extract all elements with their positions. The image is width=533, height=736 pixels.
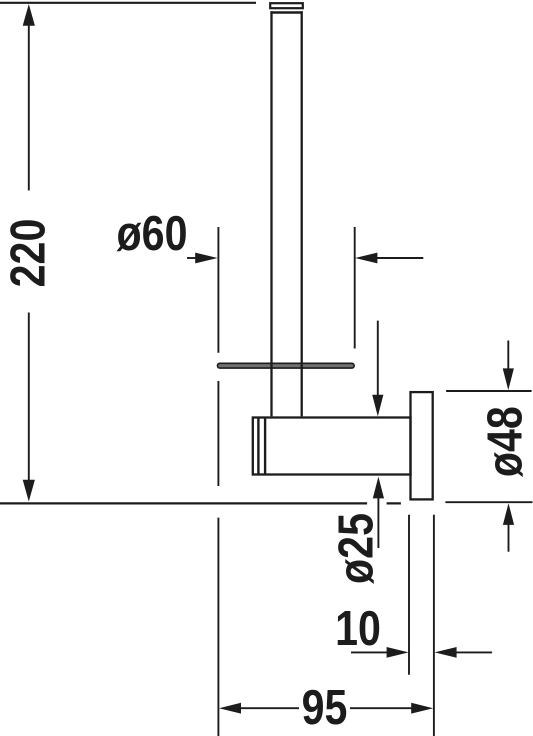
arrowhead 10 right — [435, 647, 457, 658]
dimension line ø25 top — [377, 321, 379, 396]
arrowhead 95 right — [411, 703, 433, 714]
extension line flange left (10) — [408, 515, 410, 675]
arrowhead 10 left — [387, 647, 409, 658]
arrowhead ø25 bottom — [373, 477, 384, 499]
extension line right ø60 — [354, 227, 356, 349]
extension line right (10 / 95) — [433, 515, 435, 736]
extension line ø48 top — [446, 390, 531, 392]
svg-text:ø48: ø48 — [477, 406, 532, 477]
svg-text:ø60: ø60 — [117, 206, 188, 261]
svg-text:ø25: ø25 — [328, 513, 383, 584]
extension line top (220 datum) — [0, 2, 256, 4]
dimension line ø25 bottom — [377, 498, 379, 548]
arrowhead 95 left — [219, 703, 241, 714]
holder cylinder — [253, 418, 411, 475]
arrowhead ø48 top — [503, 368, 514, 390]
dimension line 220 — [28, 24, 30, 480]
svg-text:10: 10 — [335, 601, 381, 656]
pipe body — [272, 11, 302, 416]
arrowhead ø25 top — [372, 395, 383, 417]
dimension line ø60 left — [187, 257, 196, 259]
extension line ø48 bottom — [445, 501, 532, 503]
cylinder end cap line 2 — [264, 418, 266, 475]
svg-text:220: 220 — [0, 219, 55, 288]
wall flange — [411, 392, 433, 499]
cylinder end cap line 1 — [257, 418, 259, 475]
pipe shoulder — [270, 11, 302, 14]
pipe cap — [270, 3, 303, 8]
dimension line ø60 right — [377, 257, 423, 259]
crossbar (roll support bar) — [218, 363, 355, 368]
wall line (mounting surface) — [0, 502, 401, 504]
extension line left (ø60 / 95) — [217, 227, 219, 736]
svg-text:95: 95 — [302, 680, 348, 735]
dimension line ø48 top — [507, 341, 509, 370]
arrowhead ø60 right — [355, 253, 377, 264]
arrowhead ø60 left — [195, 253, 217, 264]
dimension line 10 right — [456, 651, 492, 653]
arrowhead 220 bottom — [23, 480, 35, 502]
arrowhead 220 top — [23, 4, 35, 26]
dimension line 10 left — [351, 651, 388, 653]
dimension line ø48 bottom — [508, 524, 510, 552]
dimension line 95 — [240, 707, 412, 709]
arrowhead ø48 bottom — [503, 503, 514, 525]
